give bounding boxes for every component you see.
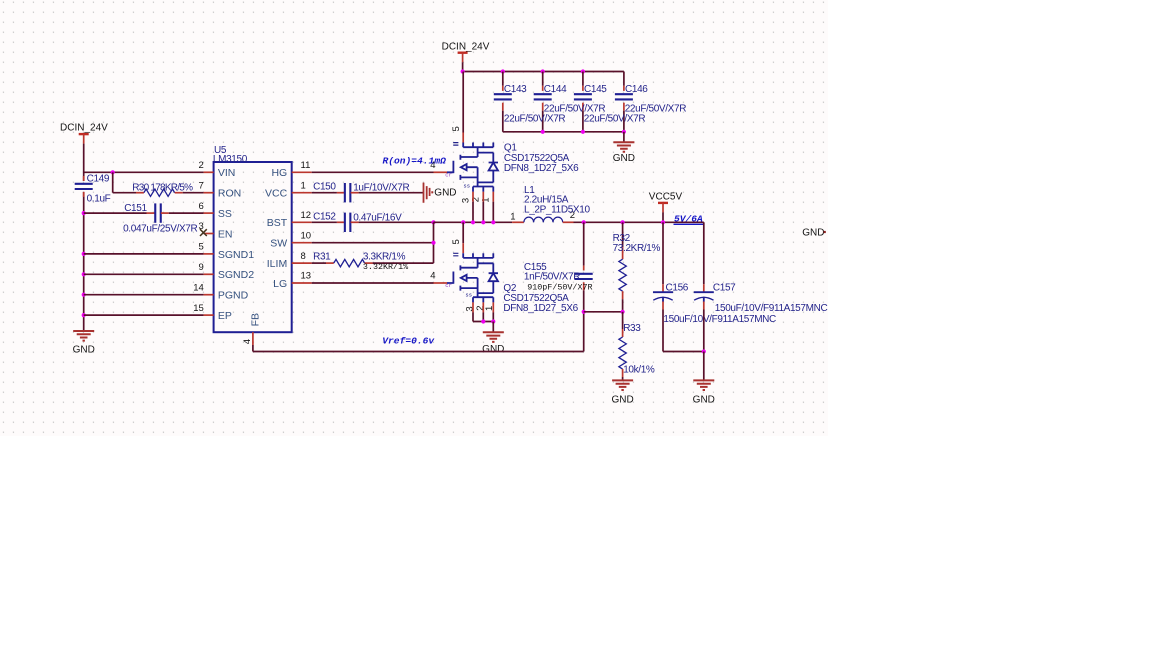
ground symbol below C146	[623, 132, 625, 142]
svg-text:BST: BST	[267, 217, 288, 229]
pin 6 SS of U5	[204, 212, 214, 214]
no-ERC marker X on EN pin	[200, 229, 207, 236]
svg-text:ss: ss	[463, 182, 470, 189]
svg-text:C156: C156	[666, 283, 689, 294]
capacitor C144 symbol	[534, 93, 552, 95]
transistor Q1 CSD17522Q5A	[447, 143, 498, 192]
svg-text:8: 8	[301, 251, 306, 262]
svg-text:13: 13	[301, 271, 312, 282]
wire Q2 source tie bar	[473, 321, 493, 323]
svg-text:73.2KR/1%: 73.2KR/1%	[613, 243, 661, 254]
resistor R31 3.3KR/1% on ILIM	[312, 262, 326, 264]
svg-text:0.047uF/25V/X7R: 0.047uF/25V/X7R	[123, 224, 197, 235]
svg-text:5V/6A: 5V/6A	[674, 214, 703, 225]
svg-text:C144: C144	[544, 84, 567, 95]
pin 10 SW of U5	[292, 242, 312, 244]
pin 15 EP of U5	[204, 314, 214, 316]
svg-text:PGND: PGND	[218, 290, 249, 302]
svg-text:SGND1: SGND1	[218, 249, 254, 261]
svg-text:FB: FB	[249, 313, 261, 326]
svg-text:9: 9	[199, 262, 204, 273]
svg-text:1: 1	[481, 198, 492, 203]
pin 1 VCC of U5	[292, 192, 312, 194]
svg-text:GND: GND	[613, 153, 635, 164]
svg-text:3.32KR/1%: 3.32KR/1%	[363, 262, 409, 272]
pin 8 ILIM of U5	[292, 262, 312, 264]
svg-text:22uF/50V/X7R: 22uF/50V/X7R	[584, 114, 646, 125]
node R32/R33 junction	[621, 310, 625, 314]
wire cap bank bottom rail	[503, 131, 624, 133]
svg-text:EN: EN	[218, 228, 233, 240]
capacitor C152 symbol	[344, 213, 346, 232]
svg-text:1nF/50V/X7R: 1nF/50V/X7R	[524, 271, 580, 282]
svg-text:2: 2	[199, 160, 204, 171]
capacitor C149 symbol	[75, 183, 93, 185]
svg-text:DCIN_24V: DCIN_24V	[442, 41, 490, 52]
svg-text:LG: LG	[273, 278, 287, 290]
pin 3 EN of U5	[204, 233, 214, 235]
svg-text:1: 1	[301, 180, 306, 191]
svg-text:SS: SS	[218, 208, 232, 220]
ground symbol bottom-left	[73, 331, 94, 341]
svg-text:15: 15	[193, 303, 204, 314]
svg-text:4: 4	[430, 270, 435, 281]
node VCC5V tap	[661, 220, 665, 224]
node BST-SW junction	[431, 220, 435, 224]
wire LG to Q2 gate	[312, 282, 434, 284]
pin 2 VIN of U5	[204, 171, 214, 173]
pin numbers 6-8 of Q1 (stacked)	[453, 143, 458, 146]
capacitor C146 symbol	[615, 93, 633, 95]
svg-text:SW: SW	[270, 238, 287, 250]
wire VCC5V output rail	[574, 221, 704, 223]
pin 11 HG of U5	[292, 171, 312, 173]
wire SW node rail	[434, 221, 513, 223]
svg-text:10k/1%: 10k/1%	[623, 365, 655, 376]
wire BST to C152	[312, 221, 337, 223]
capacitor C150 symbol	[344, 183, 346, 202]
pin 9 SGND2 of U5	[204, 273, 214, 275]
svg-text:4: 4	[242, 339, 253, 344]
capacitor C149	[83, 176, 85, 181]
wire SGND2 to ground rail	[82, 272, 86, 276]
wire HG to Q1 gate	[312, 171, 434, 173]
svg-text:6: 6	[199, 201, 204, 212]
svg-text:1uF/10V/X7R: 1uF/10V/X7R	[353, 182, 409, 193]
wire DCIN rail down left side	[83, 144, 85, 181]
pin 5 SGND1 of U5	[204, 253, 214, 255]
svg-text:R31: R31	[313, 252, 331, 263]
capacitor C145 symbol	[574, 93, 592, 95]
svg-text:910pF/50V/X7R: 910pF/50V/X7R	[527, 282, 592, 292]
wire C156 to C157 ground link	[663, 351, 704, 353]
svg-text:ILIM: ILIM	[267, 258, 287, 270]
svg-text:DFN8_1D27_5X6: DFN8_1D27_5X6	[504, 163, 579, 174]
svg-text:R(on)=4.1mΩ: R(on)=4.1mΩ	[383, 155, 447, 166]
pin numbers 6-8 of Q2 (stacked)	[453, 253, 458, 256]
svg-text:SGND2: SGND2	[218, 269, 254, 281]
capacitor C145 22uF/50V/X7R	[581, 69, 585, 73]
node SW junction	[431, 241, 435, 245]
svg-text:RON: RON	[218, 188, 241, 200]
resistor R32 symbol	[619, 259, 626, 291]
pin 4 FB of U5	[252, 332, 254, 345]
capacitor C144 22uF/50V/X7R	[541, 69, 545, 73]
svg-text:GND: GND	[802, 227, 824, 238]
resistor R30 symbol	[144, 189, 175, 196]
capacitor C151 0.047uF	[82, 211, 86, 215]
capacitor C143 symbol	[494, 93, 512, 95]
capacitor C156 150uF	[662, 222, 664, 284]
svg-text:5: 5	[451, 239, 462, 244]
svg-text:C143: C143	[504, 84, 527, 95]
wire SGND1 to ground rail	[82, 252, 86, 256]
capacitor C143 22uF/50V/X7R	[501, 69, 505, 73]
ground symbol below C157	[693, 380, 714, 390]
transistor Q2 CSD17522Q5A	[447, 253, 498, 302]
svg-text:ss: ss	[465, 292, 472, 299]
svg-text:14: 14	[193, 282, 204, 293]
svg-text:10: 10	[301, 230, 312, 241]
resistor R31 symbol	[334, 259, 365, 266]
capacitor C155 symbol	[575, 273, 593, 275]
resistor R33 10k/1%	[622, 312, 624, 329]
capacitor C146 22uF/50V/X7R	[623, 72, 625, 86]
svg-text:C146: C146	[625, 84, 648, 95]
svg-text:C152: C152	[313, 211, 336, 222]
wire EP to ground rail	[82, 313, 86, 317]
svg-text:GND: GND	[73, 345, 95, 356]
svg-text:7: 7	[199, 180, 204, 191]
svg-text:C151: C151	[124, 203, 147, 214]
capacitor C155 1nF/50V/X7R	[582, 220, 586, 224]
node Q1 source pin 1	[491, 220, 495, 224]
svg-text:C150: C150	[313, 181, 336, 192]
svg-text:HG: HG	[271, 167, 287, 179]
svg-text:DFN8_1D27_5X6: DFN8_1D27_5X6	[503, 303, 578, 314]
svg-text:C145: C145	[584, 84, 607, 95]
svg-text:GND: GND	[434, 187, 456, 198]
svg-text:5: 5	[451, 126, 462, 131]
svg-text:L_2P_11D5X10: L_2P_11D5X10	[524, 204, 590, 215]
svg-text:DCIN_24V: DCIN_24V	[60, 123, 108, 134]
svg-text:Vref=0.6v: Vref=0.6v	[382, 336, 435, 347]
svg-text:150uF/10V/F911A157MNC: 150uF/10V/F911A157MNC	[663, 314, 776, 325]
wire FB to feedback node	[252, 345, 254, 352]
capacitor C157 symbol (polarized)	[694, 291, 714, 293]
svg-text:5: 5	[199, 242, 204, 253]
wire riser SW/ILIM	[433, 222, 435, 263]
wire PGND to ground rail	[82, 293, 86, 297]
capacitor C157 150uF	[703, 222, 705, 284]
svg-text:VIN: VIN	[218, 167, 236, 179]
node Q1 source pin 2	[481, 220, 485, 224]
pin 12 BST of U5	[292, 221, 312, 223]
svg-text:GND: GND	[482, 344, 504, 355]
svg-text:12: 12	[301, 210, 312, 221]
capacitor C151 symbol	[154, 203, 156, 222]
node Q1 source pin 3	[471, 220, 475, 224]
ground symbol below Q2	[492, 322, 494, 333]
resistor R30 178KR/5%	[112, 172, 114, 192]
svg-text:LM3150: LM3150	[213, 154, 248, 165]
capacitor C156 symbol (polarized)	[653, 291, 673, 293]
svg-text:VCC5V: VCC5V	[649, 192, 683, 203]
op-amp/regulator U5 LM3150 body	[214, 162, 292, 332]
wire SW pin to rail riser	[312, 242, 434, 244]
svg-text:1: 1	[510, 211, 515, 222]
node R30 tap on VIN wire	[111, 170, 115, 174]
svg-text:VCC: VCC	[265, 188, 288, 200]
wires Q2 source pins to ground bar	[472, 302, 474, 312]
svg-text:150uF/10V/F911A157MNC: 150uF/10V/F911A157MNC	[715, 303, 828, 314]
node output cap ground junction	[702, 349, 706, 353]
svg-text:GND: GND	[693, 394, 715, 405]
pin 13 LG of U5	[292, 282, 312, 284]
inductor L1 2.2uH/15A	[524, 217, 563, 222]
resistor R33 symbol	[619, 337, 626, 369]
ground symbol below R33	[612, 380, 633, 390]
wire VIN branch	[84, 171, 204, 173]
svg-text:C149: C149	[87, 174, 110, 185]
svg-text:3.3KR/1%: 3.3KR/1%	[363, 252, 406, 263]
svg-text:GND: GND	[611, 394, 633, 405]
wire to output ground	[703, 352, 705, 381]
ground symbol right of C150 (rotated)	[424, 183, 433, 203]
wires Q1 source pins to SW rail	[472, 192, 474, 202]
svg-text:11: 11	[301, 160, 311, 171]
wire SW rail to Q2 drain	[462, 222, 464, 243]
node Q2 drain tap	[461, 220, 465, 224]
svg-text:C157: C157	[713, 283, 736, 294]
svg-text:22uF/50V/X7R: 22uF/50V/X7R	[504, 114, 566, 125]
node feedback junction	[582, 310, 586, 314]
pin 7 RON of U5	[204, 192, 214, 194]
svg-text:R33: R33	[623, 323, 641, 334]
wire DCIN to Q1 drain	[462, 72, 464, 133]
svg-text:0.1uF: 0.1uF	[87, 194, 111, 205]
pin 14 PGND of U5	[204, 294, 214, 296]
svg-text:EP: EP	[218, 310, 232, 322]
wire C150 to GND symbol	[359, 192, 424, 194]
wire feedback node to divider	[584, 311, 623, 313]
svg-text:R30 178KR/5%: R30 178KR/5%	[132, 182, 193, 193]
wire C152 to SW rail	[359, 221, 434, 223]
wire DCIN top rail	[462, 62, 464, 71]
wire VCC to C150	[312, 192, 337, 194]
resistor R32 73.2KR/1%	[621, 220, 625, 224]
